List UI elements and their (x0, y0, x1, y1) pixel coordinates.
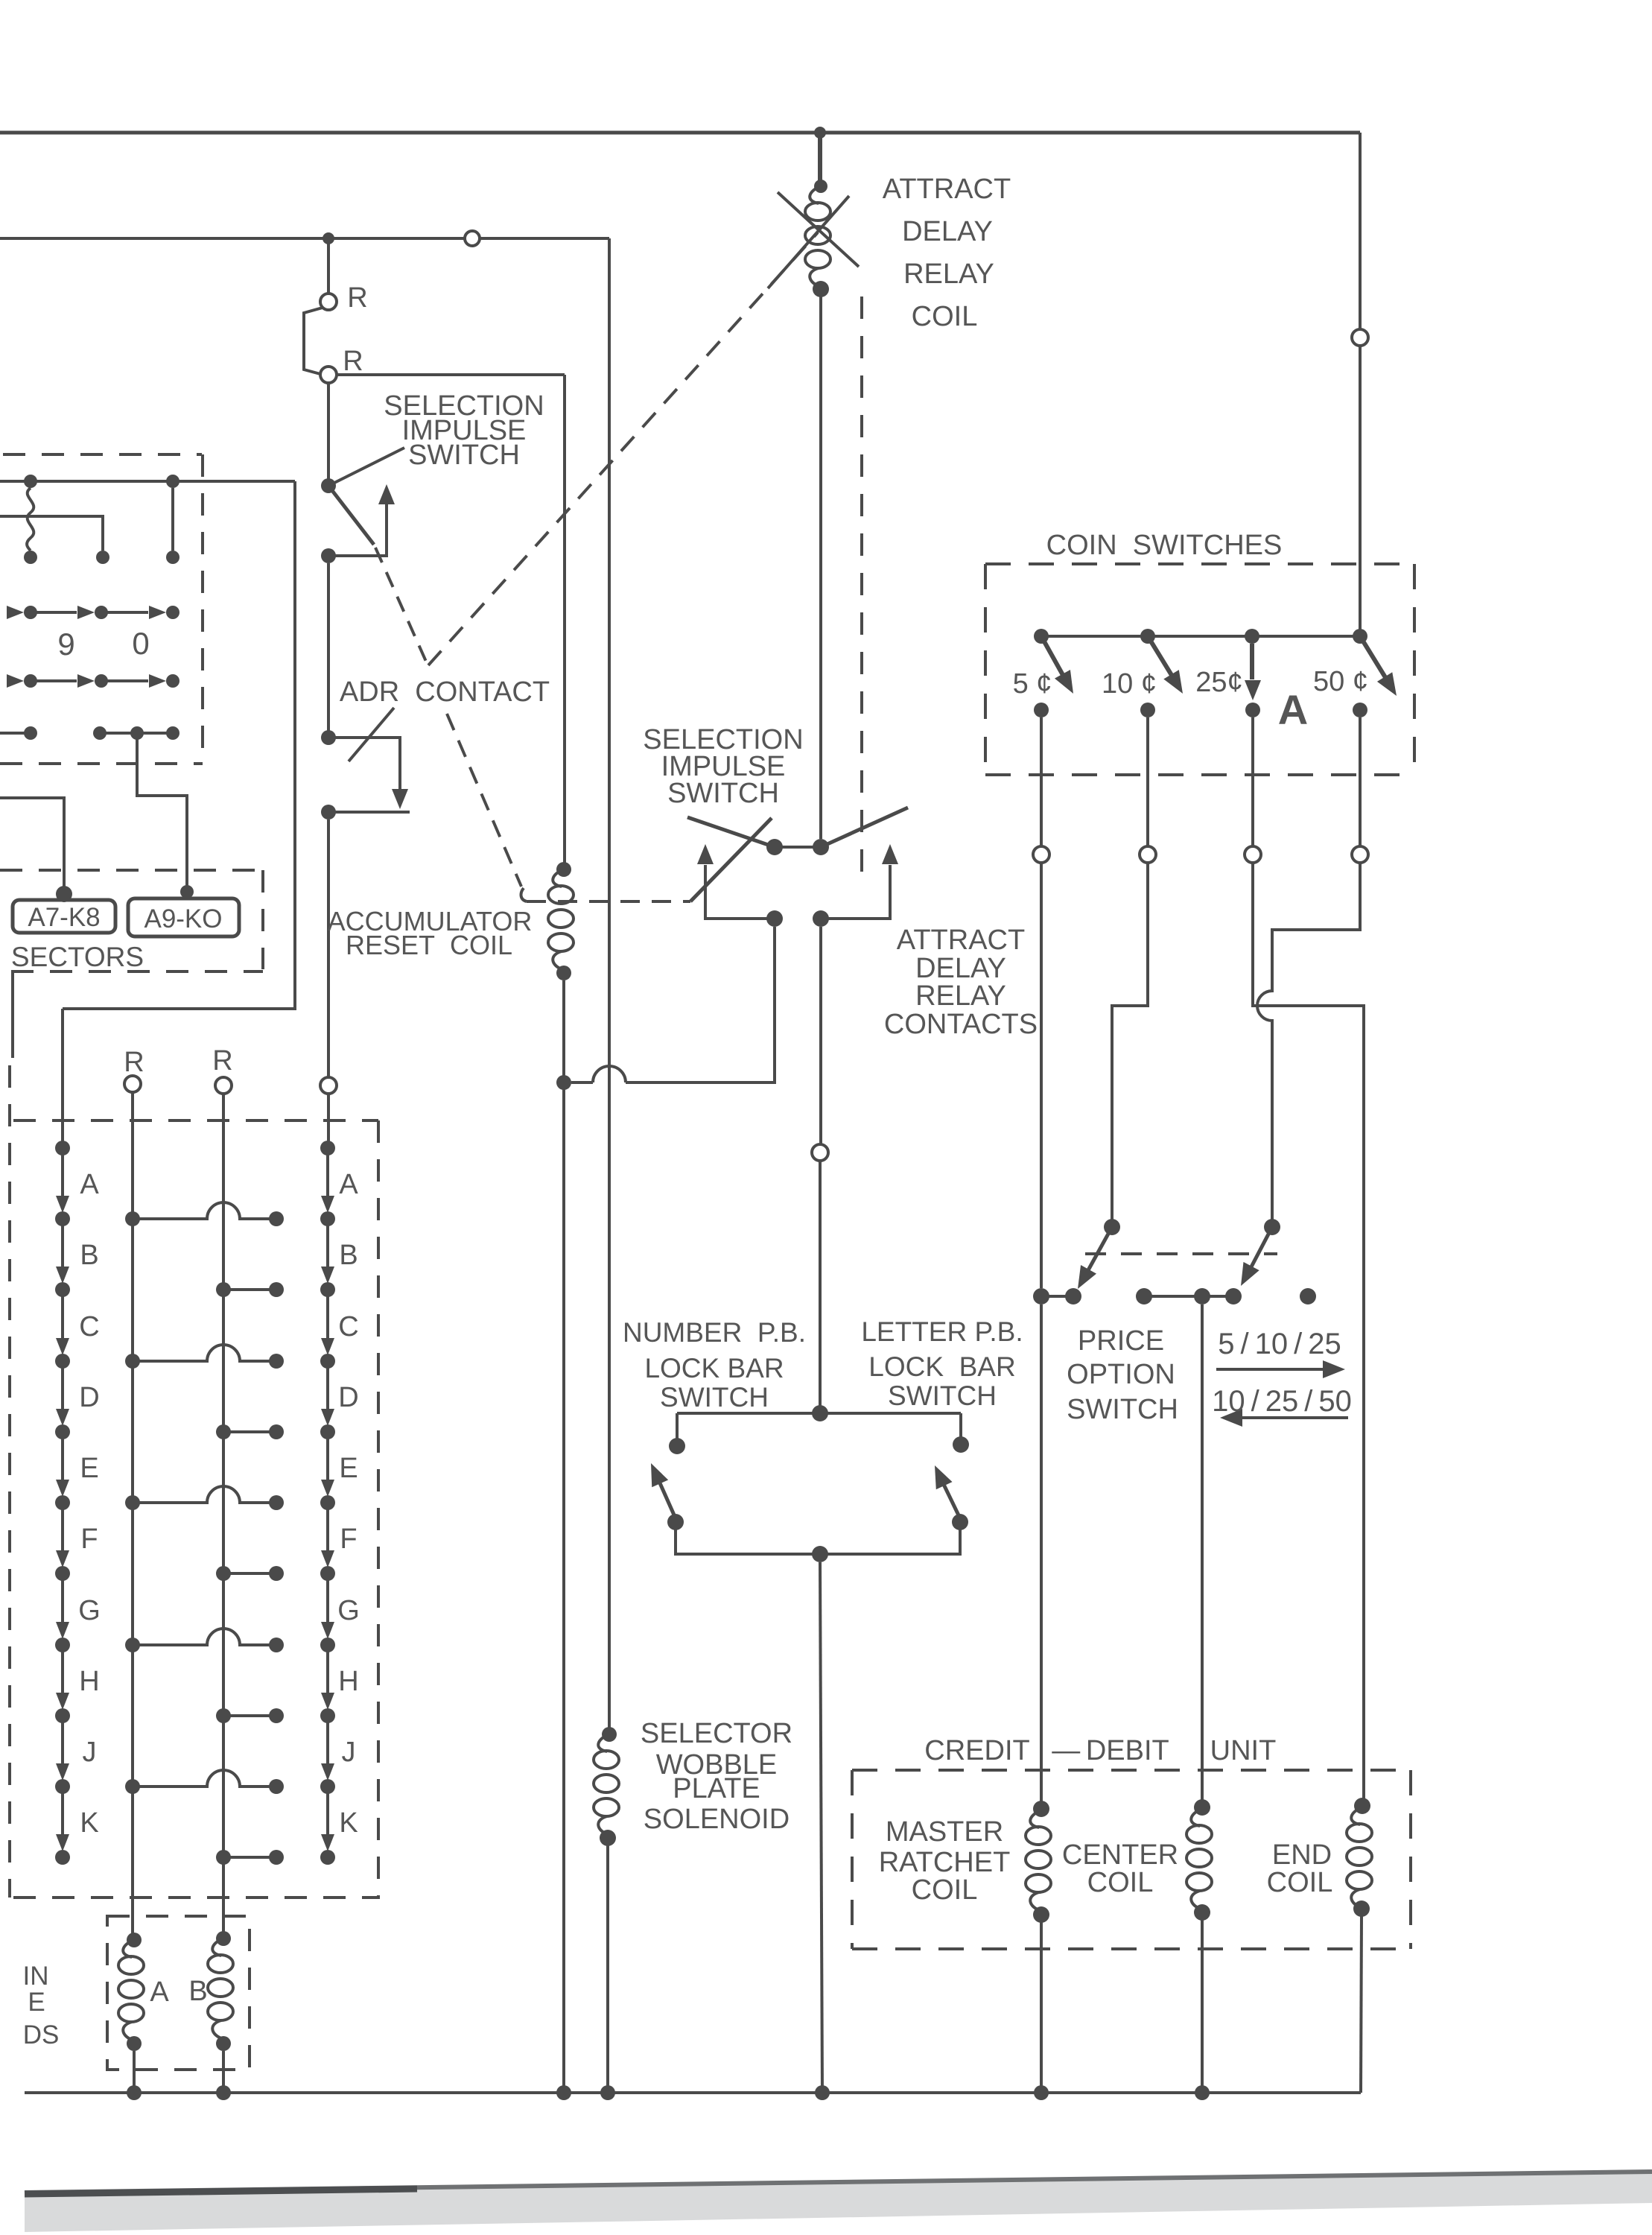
svg-text:END: END (1272, 1839, 1332, 1871)
wire dashed coin relay coil box (107, 1916, 250, 2070)
wire label pointer / blade upper (328, 448, 404, 486)
node junction dot on second bus (323, 232, 334, 244)
svg-text:J: J (342, 1737, 356, 1768)
svg-text:LOCK BAR: LOCK BAR (868, 1351, 1015, 1382)
svg-text:B: B (339, 1240, 358, 1271)
wire dashed commutator box (0, 454, 203, 764)
contact R circle column right (215, 1077, 232, 1094)
wire dashed coin switches box (985, 564, 1414, 775)
box A7-K8 sector (13, 900, 115, 933)
node bottom bus junction x=1614 (1195, 2085, 1210, 2100)
node bottom row dot c (130, 726, 144, 740)
svg-text:SECTORS: SECTORS (11, 942, 144, 972)
node 50c top dot (1353, 629, 1367, 644)
wire letter lockbar feeder upper (819, 927, 822, 1144)
wire left arrow contact arm (705, 865, 767, 919)
wire link dot b1 to c2 (171, 488, 174, 551)
svg-text:SWITCH: SWITCH (888, 1380, 997, 1411)
node bottom row dot a (24, 726, 37, 740)
arrowheads selector chain right (321, 1196, 334, 1213)
svg-text:COIN SWITCHES: COIN SWITCHES (1046, 530, 1283, 561)
svg-text:LOCK BAR: LOCK BAR (644, 1353, 784, 1383)
wire dashed mechanical link accumulator to impulse switch (521, 888, 690, 901)
svg-text:D: D (79, 1382, 99, 1413)
scan shadow band darker left edge (25, 2189, 417, 2194)
node price option left top (1104, 1219, 1120, 1235)
svg-text:ATTRACT: ATTRACT (883, 174, 1011, 205)
svg-text:PLATE: PLATE (673, 1773, 760, 1804)
node price option contact f isolated (1300, 1288, 1316, 1304)
wire coin switch common bus (1041, 635, 1360, 638)
wire attract relay coil top lead (818, 133, 822, 183)
node accumulator coil bottom dot (556, 966, 571, 980)
svg-text:SWITCH: SWITCH (667, 778, 779, 809)
contact R lower open circle (320, 367, 337, 383)
arrowhead 50c blade (1377, 672, 1404, 700)
svg-text:E: E (339, 1453, 358, 1484)
node price option contact a (1033, 1288, 1049, 1304)
node lower right contact dot (813, 910, 829, 927)
wire riser from row one to ladder feed (63, 481, 295, 1144)
svg-text:COIL: COIL (912, 1874, 978, 1906)
svg-text:R: R (347, 282, 367, 314)
svg-text:A: A (339, 1169, 358, 1200)
wire ladder rows from left column with hops (133, 1202, 276, 1787)
node center switch left dot (766, 839, 783, 855)
wire master ratchet coil to bus (1040, 1922, 1043, 2093)
node master ratchet coil bottom dot (1033, 1906, 1049, 1923)
node center coil top dot (1194, 1799, 1210, 1816)
node ladder row dot right B (216, 1282, 231, 1297)
wire number lockbar lower arm (676, 1529, 820, 1554)
arrowhead row9 c (149, 606, 166, 619)
switch 5c blade (1041, 636, 1067, 682)
contact circle 50c (1352, 846, 1368, 863)
svg-text:DELAY: DELAY (902, 216, 993, 247)
node lower left contact dot (766, 910, 783, 927)
node ladder row dot right F (216, 1566, 231, 1581)
coil coin relay B (208, 1938, 233, 2039)
switch price option right blade (1248, 1227, 1272, 1274)
wire from R contact to accumulator reset feeder (337, 373, 565, 376)
arrowhead number lockbar blade (643, 1459, 668, 1487)
wire reset column left (131, 1092, 134, 1940)
node wobble solenoid top dot (602, 1727, 617, 1742)
node coil bottom dot (813, 281, 829, 297)
wire bottom commutator row feed (0, 732, 31, 735)
svg-text:COIL: COIL (1087, 1867, 1154, 1898)
contact open circle on letter feeder (812, 1144, 828, 1161)
node row0 dot a (24, 674, 37, 688)
node row two dot b (96, 551, 109, 564)
arrowhead 10-25-50 (1220, 1409, 1242, 1427)
node coil B top dot (216, 1931, 231, 1946)
wire 50c lead down and across with hop (1257, 717, 1360, 1220)
svg-text:DS: DS (23, 2020, 60, 2049)
node end coil bottom dot (1353, 1900, 1370, 1917)
svg-text:COIL: COIL (1267, 1867, 1333, 1898)
contact circle 25c (1245, 846, 1261, 863)
node ladder row dot left E (125, 1495, 140, 1510)
wire sector feed right (137, 733, 187, 887)
svg-text:CONTACTS: CONTACTS (884, 1009, 1038, 1040)
arrowhead price option right blade (1233, 1262, 1259, 1290)
svg-text:ADR CONTACT: ADR CONTACT (340, 676, 550, 708)
arrowhead price option left blade (1070, 1265, 1097, 1293)
node price option contact d (1194, 1288, 1210, 1304)
node master ratchet coil top dot (1033, 1801, 1049, 1817)
wire second stub row (0, 516, 103, 551)
arrowhead up on contact arm (378, 484, 395, 504)
svg-text:RATCHET: RATCHET (879, 1847, 1011, 1878)
node price option right top (1264, 1219, 1280, 1235)
wire accumulator reset feeder down (563, 375, 566, 869)
wire right feeder from top bus down to coin switches (1359, 133, 1362, 636)
svg-text:D: D (338, 1382, 358, 1413)
switch number lockbar blade (655, 1471, 676, 1518)
node A9-KO terminal dot (180, 885, 194, 898)
svg-text:J: J (83, 1737, 97, 1768)
svg-text:0: 0 (132, 626, 149, 661)
contact R upper open circle (320, 294, 337, 310)
wire 5c tap down to master ratchet coil (1040, 1304, 1043, 1809)
coil master ratchet coil (1026, 1810, 1051, 1911)
scan shadow band at page bottom (25, 2170, 1652, 2232)
svg-text:RELAY: RELAY (903, 259, 994, 290)
node number lockbar lower contact (667, 1514, 684, 1530)
switch 10c blade (1148, 636, 1176, 682)
wire end coil to bus corner (1361, 1916, 1362, 2093)
wire accumulator coil lead to bottom bus (562, 980, 565, 2093)
svg-text:A: A (80, 1169, 99, 1200)
wire coil B to bus (222, 2051, 225, 2093)
wire commutator arrow row 0 (31, 679, 148, 682)
svg-text:H: H (338, 1666, 358, 1697)
wire sector feed left (0, 798, 64, 888)
contact open circle on second bus (465, 231, 480, 246)
node A7-K8 terminal dot (56, 886, 72, 902)
node row9 dot a (24, 606, 37, 619)
wire squiggle lead (27, 488, 34, 551)
node wobble solenoid bottom dot (600, 1830, 616, 1846)
svg-text:9: 9 (57, 627, 74, 662)
wire dashed credit debit unit box (852, 1770, 1411, 1949)
node number lockbar upper contact (669, 1438, 685, 1454)
svg-text:F: F (340, 1524, 357, 1555)
svg-text:E: E (80, 1453, 98, 1484)
node ladder row dot left C (125, 1354, 140, 1369)
wire dashed link from selection impulse switch blade (375, 548, 427, 663)
wire from R contact down to selection impulse switch (327, 383, 330, 483)
wire ADR upper contact arm (328, 738, 400, 791)
arrowhead row9 a (7, 606, 24, 619)
node row0 dot b (95, 674, 108, 688)
node lock bar bottom center dot (812, 1546, 828, 1562)
svg-text:NUMBER P.B.: NUMBER P.B. (623, 1317, 806, 1348)
wire letter lockbar feeder lower (819, 1161, 822, 1410)
nodes selector chain right (320, 1141, 335, 1155)
node coil top dot (814, 180, 827, 193)
node 5c bottom dot (1034, 703, 1049, 717)
node center coil bottom dot (1194, 1904, 1210, 1921)
arrowhead up right contact (882, 844, 898, 864)
wire ADR contact slash (349, 708, 394, 761)
coil selector wobble plate solenoid (594, 1734, 619, 1835)
wire X mark over attract coil stroke 2 (768, 196, 849, 288)
arrow 5-10-25 pointing right (1216, 1368, 1335, 1371)
wire 10c lead down with jog (1112, 717, 1148, 1220)
arrowhead letter lockbar blade (927, 1462, 952, 1489)
node coil B bottom dot (216, 2036, 231, 2051)
svg-text:OPTION: OPTION (1067, 1359, 1175, 1390)
node ladder row dot left G (125, 1638, 140, 1652)
switch 50c blade (1360, 636, 1390, 685)
wire selector chain left (61, 1154, 64, 1838)
node bottom bus junction x=757 (556, 2085, 571, 2100)
node 25c top dot (1245, 629, 1259, 644)
wire commutator arrow row 9 (31, 611, 148, 614)
node ladder row dot right H (216, 1708, 231, 1723)
svg-text:C: C (338, 1311, 358, 1342)
wire contact c to e (1144, 1295, 1233, 1298)
scan shadow band top edge (25, 2172, 1652, 2193)
switch letter lockbar blade (938, 1474, 960, 1518)
contact open circle on right feeder (1352, 329, 1368, 346)
wire left edge drop from sectors box (11, 971, 14, 1058)
svg-text:A: A (1278, 686, 1308, 733)
wire dashed armature line beside coil (860, 297, 863, 875)
wire lock bar top left drop (676, 1413, 679, 1439)
svg-text:K: K (339, 1807, 358, 1839)
node lock bar top center dot (812, 1405, 828, 1421)
arrowhead 25c blade (1245, 680, 1261, 700)
wire right arrow contact arm (828, 865, 890, 919)
node letter lockbar lower contact (952, 1514, 968, 1530)
svg-text:SWITCH: SWITCH (660, 1382, 769, 1413)
node row one dot a (24, 475, 37, 488)
node 10c top dot (1140, 629, 1155, 644)
svg-text:SOLENOID: SOLENOID (644, 1804, 790, 1835)
wire ladder rows from right column (223, 1290, 276, 1857)
wire bottom row link (100, 732, 173, 735)
wire center impulse switch left blade (687, 817, 775, 847)
svg-text:F: F (80, 1524, 98, 1555)
coil end coil (1347, 1807, 1372, 1908)
wire dashed ADR mechanical link (447, 714, 521, 887)
svg-text:CENTER: CENTER (1062, 1839, 1178, 1871)
node 5c top dot (1034, 629, 1049, 644)
svg-text:H: H (79, 1666, 99, 1697)
wire center tap down to center coil (1201, 1304, 1204, 1807)
coil center coil (1186, 1809, 1212, 1909)
wire lock bar top bus (677, 1412, 961, 1415)
node ladder row dot right K (216, 1850, 231, 1865)
wire reset column right (222, 1094, 225, 1938)
wire lock bar top right drop (959, 1413, 962, 1438)
wire wobble solenoid lead to bottom bus (606, 1845, 609, 2093)
arrowhead row9 b (77, 606, 95, 619)
node row two dot c (166, 551, 180, 564)
wire bottom return bus (25, 2091, 1361, 2094)
svg-text:R: R (212, 1045, 232, 1077)
arrowhead row0 b (77, 674, 95, 688)
wire dashed price option mechanical link (1085, 1252, 1277, 1255)
svg-text:COIL: COIL (912, 301, 978, 332)
arrowhead down on ADR arm (392, 789, 408, 809)
wire attract contacts right blade (821, 808, 908, 847)
coil accumulator reset coil (548, 869, 574, 970)
wire X mark over attract coil stroke 1 (778, 192, 859, 267)
svg-text:PRICE: PRICE (1078, 1325, 1164, 1357)
svg-text:C: C (79, 1311, 99, 1342)
svg-text:A7-K8: A7-K8 (28, 903, 100, 932)
node bottom row dot b (93, 726, 107, 740)
wire lock bar return to bottom bus (820, 1562, 822, 2093)
wire 25c lead down and across to end coil (1253, 717, 1364, 1798)
node ladder row dot left A (125, 1211, 140, 1226)
wire drop from bus to R contact (327, 238, 330, 294)
wire dashed sectors box (0, 870, 263, 971)
wire letter lockbar lower arm (820, 1529, 960, 1554)
node row one dot b (166, 475, 180, 488)
node lower contact of impulse switch (321, 548, 336, 563)
svg-text:IN: IN (23, 1962, 49, 1991)
node bottom bus junction x=180 (127, 2085, 142, 2100)
wire jog between R contacts (304, 308, 323, 374)
svg-text:25¢: 25¢ (1195, 667, 1242, 698)
svg-text:5 ¢: 5 ¢ (1013, 668, 1052, 700)
svg-text:MASTER: MASTER (886, 1816, 1003, 1848)
node bottom row dot d (166, 726, 180, 740)
node bottom bus junction x=1104 (815, 2085, 830, 2100)
node price option contact e (1225, 1288, 1242, 1304)
node 25c bottom dot (1245, 703, 1260, 717)
svg-text:50 ¢: 50 ¢ (1313, 666, 1368, 697)
svg-text:SWITCH: SWITCH (408, 440, 520, 471)
node ladder row dot right D (216, 1424, 231, 1439)
wire commutator row one (0, 480, 295, 483)
node row two dot a (24, 551, 37, 564)
node price option contact b (1065, 1288, 1081, 1304)
node bottom bus junction x=1398 (1034, 2085, 1049, 2100)
wire number lockbar feeder with hop over wobble line (571, 927, 775, 1082)
svg-text:RELAY: RELAY (915, 980, 1006, 1012)
coil coin relay A (118, 1940, 144, 2041)
node row0 dot c (166, 674, 180, 688)
svg-text:G: G (78, 1595, 101, 1626)
node 10c bottom dot (1140, 703, 1155, 717)
svg-text:10 ¢: 10 ¢ (1102, 668, 1157, 700)
wire 5c lead down (1040, 717, 1043, 1288)
svg-text:K: K (80, 1807, 98, 1839)
switch 25c blade vertical (1250, 644, 1254, 679)
svg-text:G: G (337, 1595, 360, 1626)
switch price option left blade (1084, 1227, 1112, 1277)
svg-text:SWITCH: SWITCH (1067, 1394, 1178, 1425)
svg-text:A9-KO: A9-KO (144, 904, 222, 933)
wire into ladder chain (327, 1094, 330, 1144)
svg-text:R: R (124, 1047, 144, 1078)
wire coil A to bus (133, 2051, 136, 2093)
svg-text:B: B (188, 1976, 207, 2007)
wire center impulse switch blade crossing (690, 818, 772, 901)
arrowhead 5c blade (1055, 670, 1081, 698)
node row9 dot c (166, 606, 180, 619)
svg-text:LETTER P.B.: LETTER P.B. (861, 1316, 1023, 1347)
wire switch blade lower (328, 486, 374, 545)
node bottom bus junction x=816 (600, 2085, 615, 2100)
node price option contact c (1136, 1288, 1152, 1304)
arrowhead 10c blade (1163, 670, 1190, 698)
node bottom bus junction x=300 (216, 2085, 231, 2100)
arrowheads selector chain left (56, 1196, 69, 1213)
wire long dashed mechanical link to attract coil (428, 232, 818, 665)
svg-text:A: A (150, 1976, 169, 2008)
wire center coil to bus (1201, 1920, 1204, 2093)
node coil A top dot (127, 1933, 142, 1947)
node end coil top dot (1354, 1798, 1370, 1814)
node row9 dot b (95, 606, 108, 619)
svg-text:UNIT: UNIT (1210, 1735, 1277, 1766)
wire selector chain right (326, 1154, 329, 1838)
svg-text:ATTRACT: ATTRACT (897, 925, 1025, 956)
wire top supply bus (0, 131, 1360, 135)
wire selector wobble feeder down right side (608, 238, 611, 1734)
contact circle 5c (1033, 846, 1049, 863)
wire second supply bus (0, 237, 609, 240)
svg-text:DELAY: DELAY (915, 953, 1006, 984)
node ADR contact upper dot (321, 730, 336, 745)
nodes selector chain left (55, 1141, 70, 1155)
coil attract delay relay coil (805, 186, 830, 287)
svg-text:CREDIT: CREDIT (924, 1735, 1029, 1766)
svg-text:— DEBIT: — DEBIT (1052, 1735, 1169, 1766)
contact R circle column left (124, 1076, 141, 1092)
arrowhead 5-10-25 (1323, 1360, 1345, 1378)
switch selection impulse switch (left) common node (321, 478, 336, 493)
wire contact a to b (1041, 1295, 1073, 1298)
box A9-KO sector (128, 898, 239, 936)
node center switch right dot (813, 839, 829, 855)
arrowhead up left contact (697, 844, 714, 864)
node letter lockbar upper contact (953, 1436, 969, 1453)
wire dashed selector ladder box (10, 1065, 380, 1898)
svg-text:RESET COIL: RESET COIL (346, 930, 512, 960)
arrowhead row0 c (149, 674, 166, 688)
svg-text:R: R (343, 346, 363, 377)
contact open circle above right ladder chain (320, 1077, 337, 1094)
wire ADR lower contact arm (328, 811, 410, 814)
node ADR contact lower dot (321, 805, 336, 819)
wire between center switch dots (775, 846, 821, 849)
wire attract coil bottom lead down to relay contacts (819, 295, 822, 839)
node accumulator coil top dot (556, 862, 571, 877)
arrowhead row0 a (7, 674, 24, 688)
arrow 10-25-50 pointing left (1230, 1416, 1348, 1419)
wire contact arm with up arrow (328, 504, 387, 556)
svg-text:E: E (28, 1988, 45, 2017)
node 50c bottom dot (1353, 703, 1367, 717)
svg-text:SELECTOR: SELECTOR (641, 1718, 792, 1749)
wire main selector line down to ladder (327, 819, 330, 1077)
wire main selector line down to ADR contact (327, 563, 330, 733)
node junction dot top bus to attract delay relay coil (814, 127, 826, 139)
contact circle 10c (1140, 846, 1156, 863)
svg-text:10 / 25 / 50: 10 / 25 / 50 (1212, 1385, 1352, 1418)
node junction on accumulator feeder (556, 1075, 571, 1090)
node coil A bottom dot (127, 2036, 142, 2051)
svg-text:5 / 10 / 25: 5 / 10 / 25 (1218, 1328, 1341, 1360)
